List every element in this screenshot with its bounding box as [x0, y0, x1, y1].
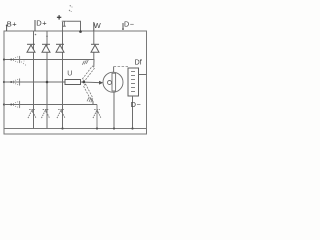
- diode D8 (negative, sketchy): [93, 110, 101, 118]
- terminal B+: [6, 25, 8, 32]
- diode D3 (positive rectifier): [56, 44, 64, 52]
- wire from + terminal to B+ rail: [67, 21, 81, 31]
- smudge marks: [69, 5, 73, 12]
- terminal + (output post with arrow): [62, 21, 67, 31]
- brush 2 (lower, hatched): [83, 84, 92, 102]
- svg-text:D−: D−: [124, 19, 135, 28]
- rail junction dots: [61, 127, 133, 129]
- phase column 3 wire: [62, 31, 64, 129]
- diode D1 (positive rectifier): [27, 44, 35, 52]
- svg-text:D−: D−: [131, 100, 141, 109]
- diode D4 lead wires: [93, 31, 95, 60]
- slip ring top lead wire: [113, 67, 115, 73]
- phase column 1 wire: [33, 31, 35, 129]
- negative bus rail: [4, 128, 147, 130]
- field box bottom wire: [132, 96, 134, 129]
- diode D5 (negative, sketchy): [28, 110, 36, 118]
- arrow into slip ring: [99, 81, 103, 85]
- stator phase lead 2 wire: [4, 81, 65, 83]
- junction phase2/column2: [46, 81, 49, 84]
- stator phase lead 1 wire: [4, 59, 95, 61]
- field winding internal dashes: [131, 72, 135, 92]
- svg-text:W: W: [94, 21, 101, 30]
- junction on top rail: [79, 30, 82, 33]
- brush 1 (upper, hatched): [82, 60, 94, 81]
- sketch dots below top rail: [35, 34, 48, 37]
- svg-text:B+: B+: [7, 19, 18, 28]
- svg-text:U: U: [67, 70, 72, 77]
- slip ring (rotor): [103, 72, 123, 92]
- stator arrow 3: [10, 101, 19, 108]
- brush in slip ring: [112, 73, 116, 91]
- brush knot junction: [82, 81, 85, 84]
- wire to field winding (dashed): [114, 66, 128, 68]
- stator arrow 2: [10, 79, 19, 86]
- resistor U: [65, 80, 81, 85]
- diode D8 lead wire: [96, 105, 98, 129]
- slip ring bottom lead wire: [113, 92, 115, 128]
- terminal D+: [34, 20, 36, 31]
- wire field box to frame: [139, 74, 147, 76]
- brush 2 lead wire: [91, 99, 93, 105]
- junction at frame: [3, 58, 5, 105]
- stator phase lead 3 wire: [4, 104, 97, 106]
- terminal D-: [122, 23, 124, 30]
- shaft circle: [108, 81, 112, 85]
- frame (alternator housing outline): [4, 31, 147, 134]
- svg-text:D+: D+: [36, 19, 47, 28]
- terminal W: [93, 22, 95, 31]
- svg-text:Df: Df: [135, 57, 142, 66]
- label +: [57, 15, 61, 20]
- diode D7 (negative, sketchy): [57, 110, 65, 118]
- stator arrow 1: [10, 56, 19, 63]
- sketch trail near arrow 1: [21, 61, 26, 66]
- diode D2 (positive rectifier): [42, 44, 50, 52]
- diode D4 (W terminal diode): [91, 44, 99, 52]
- wire resistor to brush knot: [81, 81, 100, 84]
- field winding Df box: [128, 68, 139, 96]
- phase column 2 wire: [46, 31, 48, 129]
- diode D6 (negative, sketchy): [42, 110, 50, 118]
- brush 1 lead wire: [93, 60, 95, 67]
